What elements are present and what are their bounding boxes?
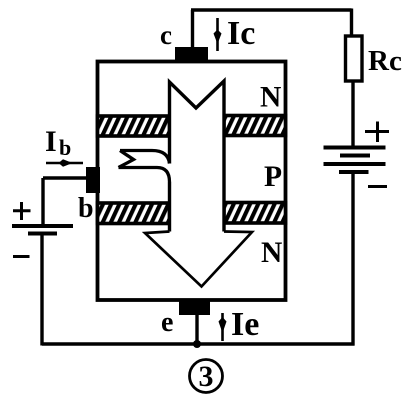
left battery long plate	[12, 224, 73, 228]
resistor Rc	[346, 36, 363, 81]
svg-text:b: b	[59, 135, 71, 160]
wire: down to Rc	[350, 9, 353, 37]
Ic current arrow	[216, 18, 219, 51]
base stream fishtail	[119, 151, 134, 168]
wire: collector riser	[191, 10, 194, 48]
collector contact pad	[175, 47, 208, 63]
junction dot	[193, 340, 201, 348]
svg-text:Ie: Ie	[231, 306, 259, 343]
svg-text:3: 3	[199, 360, 214, 393]
wire: base run	[43, 176, 87, 179]
base stream top stroke	[120, 151, 170, 164]
plus sign left	[13, 202, 31, 220]
svg-text:Rc: Rc	[368, 45, 402, 77]
svg-text:P: P	[264, 161, 282, 193]
wire: top run to Rc	[191, 8, 352, 11]
svg-text:N: N	[261, 237, 282, 269]
Ie current arrow	[221, 313, 224, 341]
wire: battery down to bottom	[351, 172, 354, 346]
transistor body box	[98, 62, 286, 301]
emitter contact pad	[179, 299, 210, 315]
wire: left vertical lower	[40, 234, 43, 346]
minus sign right	[368, 185, 387, 188]
right battery long plate 1	[324, 146, 386, 150]
junction stripe lower-right (hatched)	[224, 203, 286, 224]
svg-text:N: N	[260, 82, 281, 114]
svg-text:Ic: Ic	[227, 15, 255, 52]
right battery long plate 2	[324, 162, 386, 166]
svg-text:I: I	[45, 125, 57, 158]
wire: left vertical upper	[41, 178, 44, 226]
circled figure number 3	[190, 360, 223, 393]
big current arrow (electron stream)	[145, 81, 252, 287]
junction stripe lower-left (hatched)	[98, 203, 170, 224]
Ib current arrow	[46, 162, 83, 165]
right battery short plate 2	[339, 170, 369, 174]
junction stripe upper-right (hatched)	[224, 116, 286, 136]
right battery short plate 1	[340, 154, 370, 158]
wire: bottom run	[42, 342, 355, 345]
svg-text:c: c	[160, 20, 172, 50]
left battery short plate	[28, 232, 57, 236]
wire: Rc to battery	[351, 81, 354, 147]
svg-text:e: e	[161, 307, 173, 338]
plus sign right	[365, 122, 389, 143]
wire: emitter riser	[195, 313, 198, 344]
base stream bottom stroke	[119, 168, 170, 183]
junction stripe upper-left (hatched)	[98, 116, 170, 136]
minus sign left	[13, 255, 30, 258]
base contact pad	[86, 167, 100, 193]
svg-text:b: b	[78, 193, 94, 224]
